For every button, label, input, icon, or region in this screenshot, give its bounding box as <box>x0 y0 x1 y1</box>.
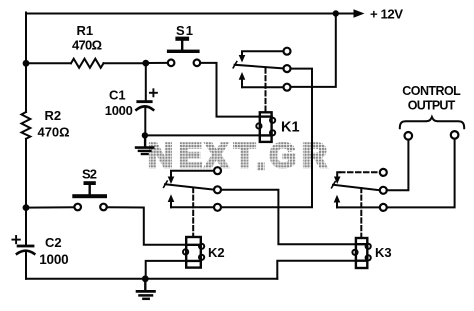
arrow up K1 <box>241 80 243 88</box>
resistor R1 zigzag <box>71 59 104 68</box>
control output right terminal <box>451 131 459 139</box>
relay contact K1: blade <box>235 65 284 69</box>
capacitor C2 wire <box>25 208 27 245</box>
node: +12V junction dot <box>333 10 339 16</box>
S2 stem <box>88 185 90 194</box>
svg-text:C1: C1 <box>109 87 126 102</box>
dashed actuator K3 <box>360 188 362 237</box>
blade tick K2 <box>164 181 168 187</box>
wire: node C to K1 coil bottom lead <box>145 134 259 136</box>
relay contact K1: NO line <box>242 86 284 88</box>
arrow down K1 <box>239 55 246 63</box>
capacitor C2 plus sign <box>12 239 19 241</box>
blade tick K1 <box>233 62 237 68</box>
switch S1 pushbutton <box>167 37 200 67</box>
node C: junction dot C1 bottom <box>142 132 148 138</box>
relay contact K3 terminal 2 <box>380 187 387 194</box>
wire: R1 line right segment <box>104 62 143 64</box>
wire: left rail upper <box>25 13 27 113</box>
svg-text:R2: R2 <box>45 108 62 123</box>
S1 left terminal <box>168 60 175 67</box>
wire: bottom rail <box>26 278 277 280</box>
relay contact K2 terminal 1 <box>214 167 221 174</box>
relay coil K1 <box>256 112 275 142</box>
capacitor C1 curved plate <box>136 106 153 109</box>
S2 right terminal <box>100 204 107 211</box>
svg-text:K1: K1 <box>281 120 300 136</box>
arrowhead +12V <box>354 9 365 17</box>
wire: +12V drop to K1 NO <box>291 14 336 87</box>
wire: K3 NO to control output right terminal <box>387 139 455 208</box>
relay contact K3: NC dashed line <box>337 172 340 177</box>
relay contact K3 terminal 3 <box>380 204 387 211</box>
dashed actuator K1 <box>265 69 267 112</box>
control output left terminal <box>405 132 413 140</box>
svg-text:470Ω: 470Ω <box>72 38 102 53</box>
arrow down K2 <box>168 177 175 185</box>
relay coil K3 <box>352 238 370 268</box>
svg-text:N: N <box>148 137 173 175</box>
capacitor C2 curved plate <box>17 251 34 254</box>
node A: junction dot left rail / R1 <box>23 60 30 67</box>
capacitor C1 wire from node B <box>145 63 147 100</box>
relay contact K2: NC line <box>171 171 214 177</box>
svg-text:1000: 1000 <box>105 103 133 118</box>
wire: S1 right to K1 coil top lead <box>200 63 259 117</box>
svg-text:T: T <box>234 137 255 175</box>
svg-text:G: G <box>270 137 297 175</box>
capacitor C1 plus sign <box>150 92 157 94</box>
svg-text:470Ω: 470Ω <box>38 125 70 140</box>
dashed actuator K2 <box>192 188 194 236</box>
wire: K1 common right, down, to K2 NO <box>221 69 312 208</box>
svg-text:R1: R1 <box>77 23 94 38</box>
relay contact K1: NC line <box>242 51 284 56</box>
switch S2 pushbutton <box>72 181 107 210</box>
wire: K2 coil bottom lead to ground rail <box>146 261 187 279</box>
relay contact K2 terminal 3 <box>214 204 221 211</box>
relay contact K2: blade <box>165 184 214 189</box>
wire: C2 bottom to bottom rail <box>25 251 27 279</box>
wire: R1 line left segment <box>26 62 71 64</box>
wire: left rail lower <box>25 139 27 208</box>
arrow up K3 <box>336 202 338 208</box>
node B: junction dot R1 / C1 / S1 <box>142 60 149 67</box>
relay contact K3 terminal 1 <box>380 169 387 176</box>
brace control output <box>400 117 464 128</box>
relay contact K3: NO line <box>337 206 380 208</box>
capacitor C2 top plate <box>17 245 35 248</box>
wire: arrow shaft to +12V <box>336 13 355 15</box>
svg-text:K3: K3 <box>375 245 392 260</box>
svg-text:S2: S2 <box>82 167 97 182</box>
relay contact K1 terminal 3 <box>284 84 291 91</box>
ground G1 <box>136 135 153 154</box>
arrow down K3 <box>334 177 341 185</box>
svg-text:+ 12V: + 12V <box>370 6 403 21</box>
resistor R2 zigzag <box>22 112 31 139</box>
wire: ground rail riser to K3 coil bottom lead <box>277 261 356 279</box>
svg-text:S1: S1 <box>176 23 193 38</box>
wire: top +12V rail <box>26 13 336 15</box>
capacitor C1 top plate <box>136 100 152 103</box>
S1 cap <box>175 37 189 41</box>
S1 right terminal <box>194 60 201 67</box>
svg-text:1000: 1000 <box>39 252 68 267</box>
S2 left terminal <box>74 204 81 211</box>
svg-text:OUTPUT: OUTPUT <box>408 99 456 113</box>
relay coil K2 <box>183 237 204 268</box>
blade tick K3 <box>332 182 336 188</box>
arrow up K2 <box>170 201 172 207</box>
relay contact K3: blade <box>333 185 380 191</box>
relay contact K2: NO line <box>171 206 214 208</box>
svg-text:E: E <box>179 137 202 175</box>
svg-text:R: R <box>302 137 327 175</box>
svg-text:.: . <box>256 139 266 177</box>
S2 bar <box>72 194 107 198</box>
S1 stem <box>181 41 183 50</box>
node D: junction dot bottom rail / ground <box>142 275 149 282</box>
ground G2 <box>137 279 154 299</box>
wire: left rail to S2 <box>26 206 74 208</box>
wire: K3 common to control output left terminal <box>387 140 409 191</box>
node: junction dot left rail / S2 line <box>23 204 30 211</box>
wire: K2 common to K3 coil top lead <box>221 190 356 244</box>
svg-text:C2: C2 <box>45 235 62 250</box>
wire: to S1 left terminal <box>146 62 168 64</box>
S2 cap <box>84 181 96 185</box>
watermark NEXT.GR <box>148 137 327 177</box>
relay contact K1 terminal 2 <box>284 65 291 72</box>
wire: C1 bottom to node C <box>144 107 146 135</box>
relay contact K2 terminal 2 <box>214 186 221 193</box>
relay contact K1 terminal 1 <box>284 48 291 55</box>
wire: S2 right to K2 coil top lead <box>107 207 186 245</box>
S1 bar <box>167 50 200 53</box>
svg-text:CONTROL: CONTROL <box>402 84 461 98</box>
svg-text:K2: K2 <box>208 245 225 260</box>
